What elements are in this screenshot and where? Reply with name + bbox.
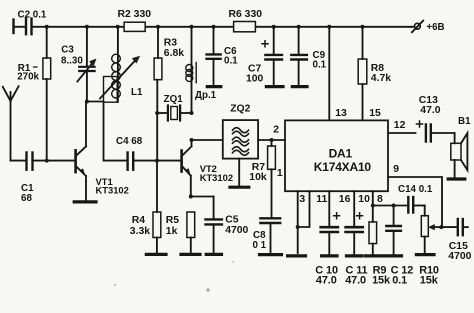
svg-text:9: 9 xyxy=(393,164,399,175)
capacitor C8 xyxy=(253,218,281,253)
capacitor C6 xyxy=(207,27,239,85)
wire pin 9 xyxy=(388,164,442,227)
antenna WA1 xyxy=(3,86,19,160)
wire collector node to ZQ2 xyxy=(192,139,223,141)
svg-text:C4 68: C4 68 xyxy=(116,136,143,147)
svg-text:C3: C3 xyxy=(61,45,74,56)
ground pin3 xyxy=(288,254,306,257)
svg-text:270k: 270k xyxy=(17,72,39,83)
ground C9 xyxy=(292,85,307,88)
node rail-R1 xyxy=(45,25,49,29)
svg-text:4700: 4700 xyxy=(225,225,248,236)
svg-text:0.1: 0.1 xyxy=(224,55,238,66)
node rail choke xyxy=(190,25,194,29)
svg-text:R3: R3 xyxy=(164,38,178,49)
svg-text:1k: 1k xyxy=(166,226,178,237)
svg-text:0 1: 0 1 xyxy=(253,240,267,251)
svg-text:R6 330: R6 330 xyxy=(229,9,263,20)
capacitor C1 xyxy=(21,153,74,204)
ground R4 xyxy=(146,253,166,256)
svg-text:C5: C5 xyxy=(225,214,239,225)
svg-text:3: 3 xyxy=(299,194,305,205)
capacitor C2 xyxy=(14,10,47,35)
ground C6 xyxy=(207,85,221,88)
svg-text:K174XA10: K174XA10 xyxy=(314,160,372,174)
wire emitter node to C5 xyxy=(191,196,214,198)
svg-text:4.7k: 4.7k xyxy=(371,73,391,84)
wire L1 loop down to C4 xyxy=(104,102,127,160)
wire pin 12 / capacitor C13 xyxy=(388,95,455,142)
capacitor C5 xyxy=(206,197,249,253)
node pin8 xyxy=(371,204,375,208)
wire C3 to L1 loop xyxy=(87,101,104,103)
ground C11 xyxy=(347,254,363,257)
svg-text:0.1: 0.1 xyxy=(392,274,407,286)
node rail-C6 xyxy=(212,25,216,29)
svg-text:R7: R7 xyxy=(252,162,266,173)
svg-text:15k: 15k xyxy=(420,274,439,286)
node rail-L1 xyxy=(116,25,120,29)
wire pin8 to C14 xyxy=(373,205,408,207)
filter ZQ2 xyxy=(223,104,258,159)
resistor R7 xyxy=(249,140,283,217)
ground C7 xyxy=(266,85,283,88)
svg-text:6.8k: 6.8k xyxy=(164,48,184,59)
resistor R2 xyxy=(118,9,152,31)
ground C8 xyxy=(260,253,282,256)
ground R5 xyxy=(181,253,200,256)
resistor R8 / pin 15 xyxy=(358,27,391,121)
capacitor C12 xyxy=(386,206,413,287)
node pin9-wiper xyxy=(439,225,443,229)
svg-text:KT3102: KT3102 xyxy=(96,185,129,196)
ground R10 xyxy=(416,253,434,256)
node VT2 collector / ZQ2 input xyxy=(190,138,194,142)
svg-text:100: 100 xyxy=(246,73,264,84)
svg-text:R5: R5 xyxy=(166,215,180,226)
svg-text:15k: 15k xyxy=(372,274,391,286)
resistor R10 variable xyxy=(419,206,441,287)
svg-text:1: 1 xyxy=(277,168,283,179)
svg-text:2: 2 xyxy=(273,125,279,136)
crystal ZQ1 xyxy=(157,94,191,121)
wire top supply rail xyxy=(47,26,411,28)
resistor R5 xyxy=(166,212,195,253)
svg-text:3.3k: 3.3k xyxy=(130,226,150,237)
node rail-pin13 xyxy=(327,25,331,29)
ground ZQ2 xyxy=(230,159,249,188)
svg-text:DA1: DA1 xyxy=(329,147,353,161)
svg-text:16: 16 xyxy=(339,194,351,205)
capacitor C3 variable 8..30 xyxy=(61,27,96,102)
resistor R9 / pins 10 8 xyxy=(358,191,391,286)
svg-text:47.0: 47.0 xyxy=(316,274,337,286)
terminal +6B xyxy=(411,21,445,33)
ground R9 xyxy=(366,254,383,257)
svg-text:KT3102: KT3102 xyxy=(200,172,233,183)
svg-text:12: 12 xyxy=(394,120,406,131)
svg-text:4700: 4700 xyxy=(448,251,471,262)
svg-text:B1: B1 xyxy=(458,116,471,127)
ground C12 xyxy=(386,254,402,257)
resistor R1 xyxy=(17,27,51,161)
node R3-ZQ1 xyxy=(155,111,159,115)
resistor R6 xyxy=(229,9,263,32)
capacitor C4 xyxy=(116,136,181,170)
svg-text:C14 0.1: C14 0.1 xyxy=(398,184,433,195)
node pin3 jog xyxy=(296,225,300,229)
svg-text:8..30: 8..30 xyxy=(61,55,83,66)
speaker B1 xyxy=(451,116,471,177)
svg-text:L1: L1 xyxy=(131,87,143,98)
svg-text:15: 15 xyxy=(369,108,381,119)
node R1-base wire xyxy=(45,159,49,163)
wire antenna to C1 xyxy=(11,160,26,162)
ground C5 xyxy=(206,253,221,256)
wire pin 3 to ground xyxy=(298,191,310,253)
node ZQ1-collector column xyxy=(190,111,194,115)
svg-text:10k: 10k xyxy=(249,172,267,183)
wire ZQ1 left down to base node xyxy=(156,113,158,161)
capacitor C10 electrolytic / pin 11 xyxy=(315,191,339,286)
node C12 xyxy=(392,204,396,208)
capacitor C9 xyxy=(291,27,326,85)
svg-text:47.0: 47.0 xyxy=(420,105,440,116)
capacitor C7 electrolytic xyxy=(246,27,282,85)
ground B1 xyxy=(448,177,465,180)
node rail-C3 xyxy=(85,25,89,29)
svg-text:C2 0.1: C2 0.1 xyxy=(18,10,47,21)
svg-text:47.0: 47.0 xyxy=(345,274,366,286)
node pin2-R7 xyxy=(270,138,274,142)
svg-text:ZQ2: ZQ2 xyxy=(230,104,250,115)
transistor VT2 KT3102 xyxy=(182,140,233,197)
svg-text:R2 330: R2 330 xyxy=(118,9,152,20)
svg-text:11: 11 xyxy=(316,194,327,205)
capacitor C14 xyxy=(398,184,433,212)
node rail-C7 xyxy=(272,25,276,29)
node VT2 emitter / R5 / C5 xyxy=(189,195,193,199)
svg-text:10: 10 xyxy=(358,194,370,205)
svg-text:Др.1: Др.1 xyxy=(195,90,217,101)
capacitor C15 xyxy=(441,219,471,262)
svg-text:R4: R4 xyxy=(132,215,146,226)
svg-text:ZQ1: ZQ1 xyxy=(164,94,184,105)
svg-text:+6B: +6B xyxy=(426,22,444,33)
node C3-L1 bottom xyxy=(85,100,89,104)
capacitor C11 electrolytic / pin 16 xyxy=(339,191,368,286)
inductor L1 variable xyxy=(100,27,143,102)
ground VT1 emitter xyxy=(74,200,96,203)
wire pin 13 xyxy=(329,27,347,121)
ground C10 xyxy=(322,254,337,257)
svg-text:0.1: 0.1 xyxy=(313,59,327,70)
node base wire VT2 / R4 / ZQ1 xyxy=(155,159,159,163)
IC DA1 K174XA10 xyxy=(285,120,388,191)
resistor R4 xyxy=(130,161,161,253)
inductor choke Dr.1 xyxy=(186,27,217,113)
svg-text:68: 68 xyxy=(21,193,32,204)
wire ZQ2 out to pin 2 xyxy=(258,125,285,140)
resistor R3 xyxy=(154,27,184,113)
node rail-R8 xyxy=(361,25,365,29)
svg-text:13: 13 xyxy=(335,108,347,119)
node rail-C9 xyxy=(297,25,301,29)
svg-text:8: 8 xyxy=(377,194,383,205)
transistor VT1 KT3102 xyxy=(76,102,129,201)
node rail-R3 xyxy=(156,25,160,29)
